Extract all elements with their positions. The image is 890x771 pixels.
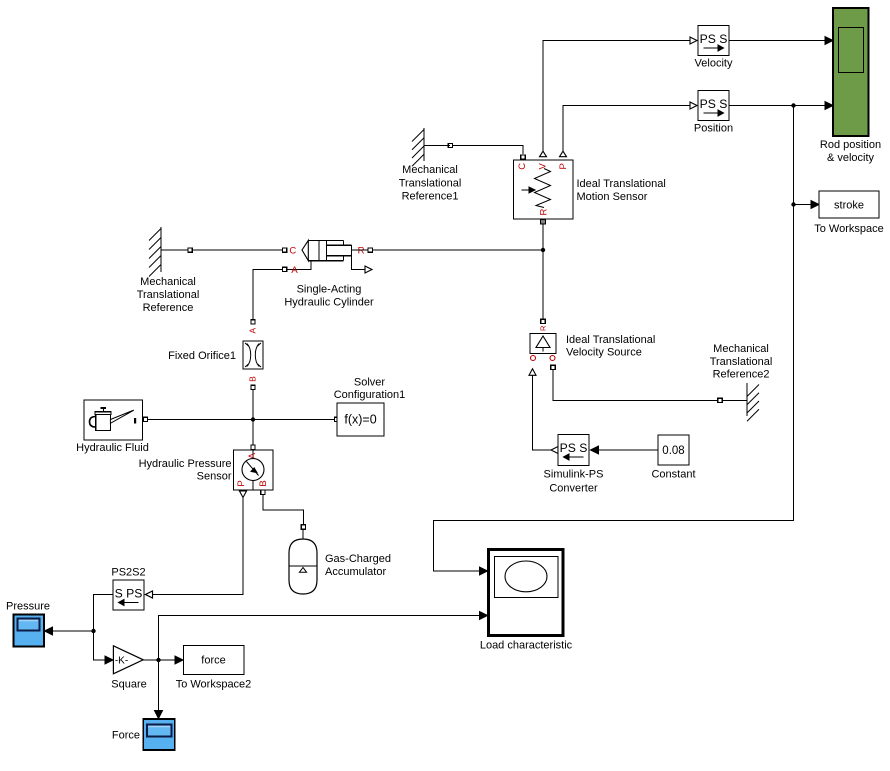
svg-text:Ideal Translational: Ideal Translational	[577, 178, 666, 190]
svg-text:Mechanical: Mechanical	[713, 343, 769, 355]
svg-text:force: force	[201, 655, 225, 667]
svg-text:Rod position: Rod position	[820, 139, 881, 151]
svg-text:R: R	[539, 208, 550, 215]
svg-text:Simulink-PS: Simulink-PS	[544, 469, 604, 481]
svg-text:Pressure: Pressure	[6, 601, 50, 613]
svg-text:Fixed Orifice1: Fixed Orifice1	[168, 350, 236, 362]
svg-text:Hydraulic Fluid: Hydraulic Fluid	[76, 442, 149, 454]
svg-text:Translational: Translational	[399, 178, 462, 190]
svg-text:V: V	[538, 162, 549, 169]
svg-text:B: B	[258, 480, 269, 486]
svg-text:Gas-Charged: Gas-Charged	[325, 553, 391, 565]
svg-text:Reference1: Reference1	[402, 191, 459, 203]
svg-text:Translational: Translational	[710, 356, 773, 368]
svg-text:A: A	[248, 328, 258, 334]
svg-text:To Workspace: To Workspace	[814, 223, 884, 235]
svg-text:To Workspace2: To Workspace2	[176, 679, 252, 691]
svg-text:PS S: PS S	[560, 441, 588, 455]
svg-text:Force: Force	[112, 730, 140, 742]
svg-text:Square: Square	[111, 679, 146, 691]
svg-text:Sensor: Sensor	[197, 471, 232, 483]
svg-text:Velocity Source: Velocity Source	[566, 347, 642, 359]
svg-text:S PS: S PS	[115, 587, 143, 601]
svg-text:PS S: PS S	[700, 32, 728, 46]
svg-text:Translational: Translational	[137, 289, 200, 301]
svg-text:PS2S2: PS2S2	[111, 567, 145, 579]
svg-text:Position: Position	[694, 123, 733, 135]
svg-text:Reference: Reference	[143, 302, 194, 314]
svg-text:Mechanical: Mechanical	[402, 164, 458, 176]
svg-text:C: C	[517, 163, 528, 170]
svg-text:Configuration1: Configuration1	[334, 389, 406, 401]
svg-text:Accumulator: Accumulator	[325, 566, 386, 578]
svg-text:P: P	[236, 480, 247, 486]
svg-text:R: R	[358, 246, 365, 257]
svg-text:Solver: Solver	[354, 377, 386, 389]
svg-text:& velocity: & velocity	[827, 152, 875, 164]
svg-text:Ideal Translational: Ideal Translational	[566, 334, 655, 346]
svg-text:Hydraulic Cylinder: Hydraulic Cylinder	[284, 297, 374, 309]
svg-text:P: P	[558, 163, 569, 169]
svg-text:PS S: PS S	[700, 97, 728, 111]
svg-text:R: R	[539, 325, 548, 331]
svg-text:B: B	[248, 376, 258, 382]
svg-text:Single-Acting: Single-Acting	[297, 284, 362, 296]
svg-text:A: A	[291, 265, 298, 276]
svg-text:Load characteristic: Load characteristic	[480, 640, 573, 652]
svg-text:C: C	[289, 246, 296, 257]
svg-text:Velocity: Velocity	[695, 58, 733, 70]
svg-text:stroke: stroke	[834, 200, 864, 212]
svg-text:Mechanical: Mechanical	[140, 276, 196, 288]
svg-text:f(x)=0: f(x)=0	[344, 413, 376, 427]
svg-text:Constant: Constant	[651, 469, 695, 481]
svg-text:Hydraulic Pressure: Hydraulic Pressure	[139, 458, 232, 470]
svg-text:Reference2: Reference2	[713, 369, 770, 381]
svg-text:0.08: 0.08	[662, 445, 684, 457]
svg-text:-K-: -K-	[115, 656, 128, 667]
svg-text:Converter: Converter	[549, 483, 598, 495]
svg-text:Motion Sensor: Motion Sensor	[577, 191, 648, 203]
